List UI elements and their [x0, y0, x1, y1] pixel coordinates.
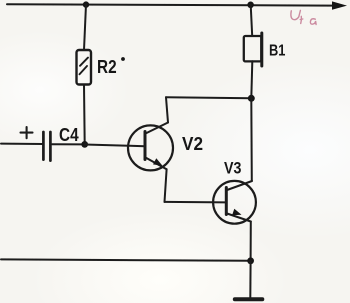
transistor V3 body circle	[213, 181, 256, 224]
transducer B1 side bar	[260, 33, 263, 66]
transistor V3 emitter diagonal	[227, 214, 251, 222]
label U1a (handwritten, pink)	[291, 10, 316, 24]
resistor R2 hatch marks	[80, 58, 88, 66]
ground symbol	[235, 297, 262, 301]
wire from node to V2 base	[85, 145, 145, 147]
svg-text:V2: V2	[182, 133, 203, 154]
node junction below B1	[248, 95, 255, 102]
wire top rail	[7, 4, 333, 5]
capacitor C4 right plate	[49, 132, 52, 161]
capacitor C4 left plate	[42, 132, 45, 160]
wire V3 emitter down	[250, 222, 252, 261]
transistor V2 body circle	[128, 125, 173, 170]
resistor R2 body	[77, 50, 92, 85]
transistor V2 base bar	[144, 132, 147, 160]
transistor V2 collector diagonal	[146, 123, 169, 134]
wire V2 emitter to V3 base	[165, 201, 227, 204]
wire B1 up to top rail	[251, 5, 253, 36]
transistor V2 emitter diagonal	[146, 158, 167, 170]
transistor V3 collector diagonal	[227, 181, 252, 190]
node junction on top rail (B1 branch)	[247, 2, 254, 9]
svg-text:B1: B1	[269, 42, 286, 59]
node junction C4/R2/base	[81, 141, 88, 148]
wire from top rail down to R2	[84, 5, 86, 50]
label R2 star dot	[121, 57, 125, 61]
polarity plus sign of C4	[21, 127, 33, 138]
wire V2 collector to B1 branch	[166, 97, 251, 98]
node junction bottom rail	[247, 257, 254, 264]
wire node up to B1	[251, 61, 252, 98]
transducer B1 body	[244, 36, 261, 61]
svg-text:V3: V3	[224, 159, 241, 178]
wire bottom rail	[1, 259, 251, 260]
wire down to ground	[249, 261, 251, 299]
wire V3 collector up to node	[250, 98, 253, 181]
svg-text:R2: R2	[97, 57, 117, 77]
transistor V3 base bar	[225, 188, 228, 215]
wire V2 emitter down	[165, 169, 167, 202]
wire from left edge to capacitor C4	[1, 143, 42, 145]
output arrowhead	[332, 1, 347, 9]
svg-text:C4: C4	[59, 124, 79, 145]
wire V2 collector up	[166, 97, 168, 122]
transistor V2 emitter arrow	[153, 158, 163, 166]
wire from R2 down to C4 node	[83, 85, 86, 145]
node junction on top rail (R2 branch)	[83, 1, 89, 7]
transistor V3 emitter arrow	[232, 209, 241, 215]
wire from C4 to node	[52, 143, 85, 145]
